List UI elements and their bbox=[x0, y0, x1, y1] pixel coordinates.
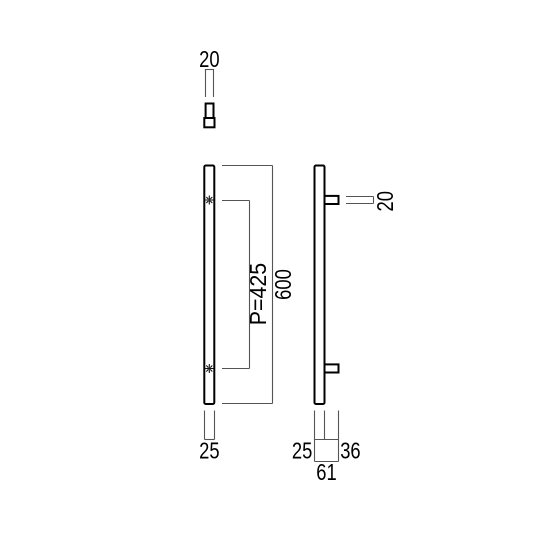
extension line bottom (P=425) bbox=[222, 368, 250, 370]
dimension text 20 (top view post width) bbox=[199, 47, 219, 72]
dimension text 25 (side) bbox=[292, 439, 312, 464]
dimension line 20 (post) bbox=[373, 197, 375, 204]
dimension text 600 bbox=[271, 269, 296, 300]
extension line left (25 front) bbox=[204, 411, 206, 440]
side view: bottom post bbox=[325, 364, 339, 372]
svg-text:P=425: P=425 bbox=[245, 263, 271, 325]
dimension line 25 (front) bbox=[205, 439, 215, 441]
svg-text:36: 36 bbox=[340, 439, 360, 464]
dimension line P=425 bbox=[249, 201, 251, 369]
extension line bottom (600) bbox=[222, 403, 273, 405]
front view: top fixing mark bbox=[205, 196, 214, 205]
dimension text P=425 bbox=[245, 263, 271, 325]
dimension line for 20 (top view) bbox=[205, 69, 214, 71]
svg-text:25: 25 bbox=[199, 439, 219, 464]
dimension text 20 (post) bbox=[373, 191, 398, 211]
dimension text 61 (side) bbox=[316, 460, 336, 485]
extension line left (side bottom) bbox=[314, 411, 316, 462]
front view: bottom fixing mark bbox=[205, 364, 214, 373]
extension line right (top view 20) bbox=[213, 70, 215, 98]
extension line left (top view 20) bbox=[205, 70, 207, 98]
extension line top (600) bbox=[222, 165, 273, 167]
svg-text:600: 600 bbox=[271, 269, 296, 300]
extension line right (side bottom) bbox=[338, 411, 340, 462]
top view: bar cross-section rectangle bbox=[204, 118, 214, 127]
svg-text:25: 25 bbox=[292, 439, 312, 464]
dimension line 600 bbox=[272, 166, 274, 404]
extension line bottom (post 20) bbox=[346, 203, 374, 205]
side view: top post bbox=[325, 196, 339, 204]
extension line top (P=425) bbox=[222, 200, 250, 202]
svg-text:20: 20 bbox=[199, 47, 219, 72]
dimension text 25 (front) bbox=[199, 439, 219, 464]
top view: post rectangle bbox=[206, 104, 214, 119]
dimension line 25/36 (side) bbox=[315, 439, 339, 441]
svg-text:61: 61 bbox=[316, 460, 336, 485]
svg-text:20: 20 bbox=[373, 191, 398, 211]
side view: handle bar bbox=[315, 166, 325, 405]
dimension line 61 (side) bbox=[315, 461, 339, 463]
extension line right (25 front) bbox=[214, 411, 216, 440]
extension line top (post 20) bbox=[346, 196, 374, 198]
extension line middle (side bottom) bbox=[324, 411, 326, 440]
front view: handle bar bbox=[204, 166, 214, 405]
dimension text 36 (side) bbox=[340, 439, 360, 464]
